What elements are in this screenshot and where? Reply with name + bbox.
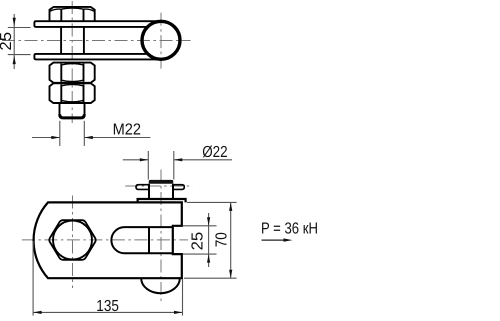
slot (oblong hole)	[111, 227, 172, 253]
dimension Ø22	[123, 151, 232, 180]
eye bar bottom arc	[141, 278, 180, 293]
centerline vertical bolt axis top view	[71, 1, 73, 123]
dimension 25 (left, plate gap)	[8, 14, 31, 69]
centerline horizontal pin axis	[125, 185, 193, 187]
dimension 135	[33, 241, 182, 316]
stud edge in slot	[148, 227, 150, 253]
svg-text:Ø22: Ø22	[202, 144, 227, 161]
load arrow	[262, 239, 286, 241]
cotter pin right end	[173, 185, 185, 190]
centerline horizontal top view	[2, 40, 191, 42]
svg-text:M22: M22	[113, 122, 141, 139]
threaded stud end (bottom)	[60, 103, 85, 118]
bolt head circle	[53, 221, 92, 260]
svg-text:70: 70	[214, 232, 231, 247]
plate 1 (upper clevis plate)	[34, 21, 156, 27]
plate 2 (lower clevis plate)	[34, 54, 156, 60]
cotter pin left end	[136, 185, 149, 190]
hex nut N3	[50, 83, 95, 103]
hex bolt head (hexagon)	[49, 220, 95, 260]
stud top cap (pin head)	[149, 180, 174, 184]
svg-text:25: 25	[0, 32, 15, 51]
clevis body outline	[34, 202, 182, 278]
centerline vertical eye axis top view	[160, 13, 162, 69]
centerline vertical stud axis bottom view	[160, 170, 162, 303]
eye ring (thick circle)	[142, 21, 180, 59]
dimension M22	[32, 121, 150, 146]
dimension 25 (right, slot)	[183, 213, 217, 267]
hex nut N1 (top)	[50, 7, 95, 21]
stud sides above washer	[149, 184, 173, 199]
stud between plates (M22 shank)	[61, 27, 84, 54]
svg-text:25: 25	[190, 232, 207, 251]
washer plate	[138, 199, 186, 202]
centerline horizontal bottom view	[22, 239, 188, 241]
svg-text:135: 135	[96, 298, 119, 315]
hex nut N2	[50, 63, 95, 83]
dimension 70	[184, 202, 237, 278]
svg-text:P = 36 кН: P = 36 кН	[261, 221, 318, 238]
centerline vertical hex bolt axis bottom view	[72, 196, 74, 289]
